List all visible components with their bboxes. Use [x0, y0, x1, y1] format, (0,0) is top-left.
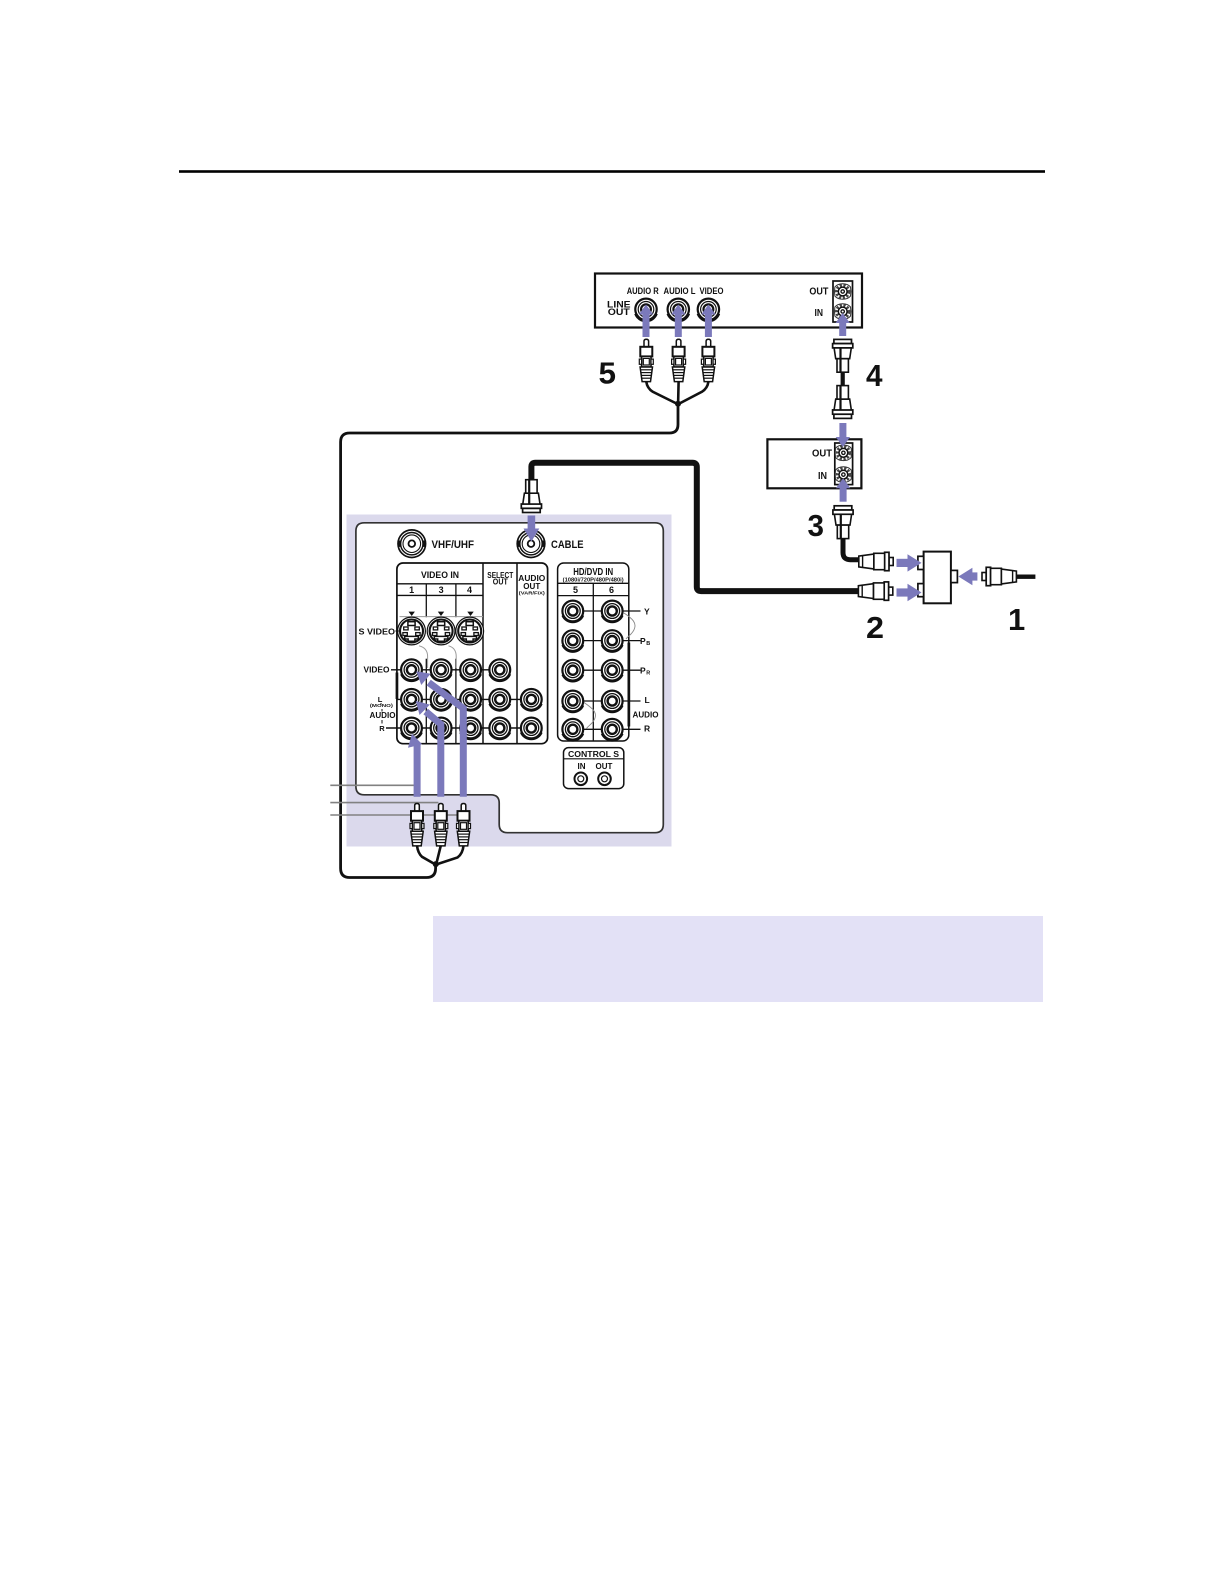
- F jack OUT (cable box): [835, 445, 852, 461]
- svg-text:P: P: [640, 666, 646, 676]
- HD jack 6 L: [602, 691, 623, 713]
- HD jack 5 Y: [562, 601, 583, 623]
- arrow into AUDIO L 1 jack: [423, 709, 444, 797]
- svg-text:2: 2: [866, 610, 884, 645]
- AUDIO L jack 1: [401, 689, 422, 711]
- L row line: [397, 698, 541, 700]
- column divider 1/3: [425, 584, 427, 743]
- svideo group plate: [399, 617, 481, 659]
- numbers row underline HD/DVD: [558, 595, 629, 597]
- wire: A/V cable 5 trunk loop: [341, 404, 678, 878]
- link curve Y/Pb col6: [624, 613, 635, 639]
- svg-text:Y: Y: [644, 606, 650, 616]
- svg-text:(VAR/FIX): (VAR/FIX): [519, 591, 545, 597]
- wire: TV side plug leads: [417, 846, 464, 865]
- arrow into CABLE jack: [528, 516, 536, 531]
- Pb row line: [573, 640, 641, 642]
- RCA plug into AUDIO R: [457, 804, 471, 846]
- header underline HD/DVD: [558, 582, 629, 584]
- svideo-video link 3: [449, 646, 457, 668]
- TV rear lavender backdrop: [347, 515, 672, 847]
- svg-text:IN: IN: [578, 762, 586, 771]
- svg-text:HD/DVD IN: HD/DVD IN: [573, 567, 613, 578]
- column divider 3/4: [455, 584, 457, 743]
- svg-text:1: 1: [1008, 602, 1025, 637]
- leader line 1: [330, 784, 414, 786]
- cable box rear panel: [767, 439, 861, 488]
- svg-text:1: 1: [409, 585, 414, 595]
- VIDEO jack 3: [431, 659, 452, 681]
- svg-text:OUT: OUT: [809, 285, 828, 297]
- leader line 3: [330, 814, 461, 816]
- header underline VIDEO IN: [397, 583, 483, 585]
- Y row line: [573, 610, 641, 612]
- svg-text:CONTROL S: CONTROL S: [568, 750, 620, 759]
- VHF/UHF jack: [398, 530, 426, 558]
- Pr row line: [573, 669, 641, 671]
- RCA plug into AUDIO L: [434, 804, 448, 846]
- AUDIO L jack 3: [431, 689, 452, 711]
- svg-text:5: 5: [573, 585, 578, 595]
- svg-text:AUDIO R: AUDIO R: [627, 286, 659, 296]
- VIDEO jack 4: [460, 659, 481, 681]
- splitter port lower left: [918, 584, 924, 597]
- svg-text:R: R: [646, 671, 650, 677]
- svg-text:B: B: [646, 641, 650, 647]
- svg-text:OUT: OUT: [608, 307, 630, 318]
- svg-text:3: 3: [808, 508, 825, 543]
- AUDIO R jack 4: [460, 718, 481, 740]
- svg-text:(1080i/720P/480P/480i): (1080i/720P/480P/480i): [563, 577, 624, 583]
- svg-text:OUT: OUT: [596, 762, 613, 771]
- arrow into AUDIO L: [671, 305, 685, 338]
- VCR RF strip: [833, 281, 853, 322]
- arrow into AUDIO R 1 jack: [414, 744, 421, 797]
- S VIDEO socket 3: [427, 617, 455, 645]
- arrow cable2 into splitter (right): [897, 584, 922, 601]
- F connector of cable 3 (horizontal): [859, 552, 893, 570]
- VIDEO IN jack table: [397, 563, 548, 744]
- arrow into cable box OUT (down): [836, 423, 850, 447]
- F connector of cable 1 (pointing left): [982, 567, 1016, 585]
- group bar left: [396, 673, 399, 700]
- F plug bottom of cable 4: [833, 386, 853, 419]
- VCR rear panel box: [595, 274, 862, 328]
- CABLE jack: [517, 530, 545, 558]
- AUDIO OUT L jack: [521, 689, 542, 711]
- svg-text:AUDIO: AUDIO: [633, 711, 659, 720]
- svg-text:IN: IN: [815, 307, 824, 319]
- CONTROL S OUT jack: [598, 773, 611, 786]
- arrow into VCR RF IN: [836, 313, 850, 336]
- TV rear white panel (stepped outline): [356, 523, 663, 833]
- svg-text:5: 5: [599, 356, 617, 391]
- svg-text:VIDEO IN: VIDEO IN: [421, 570, 459, 581]
- AUDIO L jack select out: [489, 689, 510, 711]
- F jack IN (cable box): [835, 467, 852, 483]
- RCA jack AUDIO R: [635, 299, 656, 322]
- AUDIO L jack 4: [460, 689, 481, 711]
- svg-text:P: P: [640, 636, 646, 646]
- HD jack 5 L: [562, 691, 583, 713]
- arrow into AUDIO R: [639, 305, 653, 338]
- cable box RF strip: [835, 443, 853, 485]
- marker above S VIDEO 4: [467, 612, 473, 616]
- marker above S VIDEO 3: [438, 612, 444, 616]
- link curve L/R col5: [584, 703, 596, 729]
- svg-text:(MONO): (MONO): [370, 703, 393, 709]
- RCA jack AUDIO L: [668, 299, 689, 322]
- HD jack 6 Pb: [602, 630, 623, 652]
- F plug top of cable 4: [833, 339, 853, 372]
- wire: antenna cable 1: [1014, 575, 1035, 579]
- coax cable 4 (VCR IN to cable box OUT): [841, 370, 845, 388]
- arrow cable1 into splitter (left): [958, 568, 977, 585]
- HD jack 6 Pr: [602, 660, 623, 682]
- svg-text:IN: IN: [818, 470, 827, 482]
- CONTROL S header underline: [564, 758, 624, 760]
- column divider 5/6: [592, 583, 594, 741]
- coax cable 3 (cable box IN to splitter): [843, 536, 859, 560]
- RCA plug to VIDEO: [701, 339, 715, 381]
- RCA jack VIDEO: [698, 299, 719, 322]
- svg-text:VIDEO: VIDEO: [700, 286, 724, 296]
- VIDEO jack 1: [401, 659, 422, 681]
- F plug into TV CABLE jack (pointing down): [521, 480, 541, 513]
- RCA plug into VIDEO 1: [410, 804, 424, 846]
- AUDIO OUT R jack: [521, 718, 542, 740]
- svg-text:CABLE: CABLE: [551, 539, 584, 551]
- svg-text:OUT: OUT: [812, 447, 833, 459]
- svg-text:3: 3: [439, 585, 444, 595]
- svg-text:6: 6: [609, 585, 614, 595]
- splitter body: [924, 552, 951, 604]
- HD jack 5 Pb: [562, 630, 583, 652]
- video row line: [391, 669, 511, 671]
- svideo-video link 1: [419, 646, 428, 668]
- R row line: [386, 727, 541, 729]
- group bar right: [628, 643, 631, 727]
- AUDIO R jack select out: [489, 718, 510, 740]
- arrow cable3 into splitter (right): [897, 554, 922, 571]
- info note box: [433, 916, 1043, 1002]
- L row line (HD): [573, 700, 641, 702]
- svg-text:R: R: [379, 724, 385, 733]
- leader line 2: [330, 802, 438, 804]
- F jack OUT (VCR): [834, 284, 851, 300]
- VIDEO jack select out: [489, 659, 510, 681]
- RCA plug to AUDIO R: [639, 339, 653, 381]
- svg-text:4: 4: [467, 585, 472, 595]
- S VIDEO socket 1: [398, 617, 426, 645]
- arrow into cable box IN (up): [836, 478, 850, 502]
- HD jack 5 R: [562, 719, 583, 741]
- svg-text:OUT: OUT: [493, 578, 508, 587]
- splitter port right: [951, 570, 958, 582]
- svideo group line: [400, 616, 484, 618]
- CONTROL S box: [564, 748, 624, 789]
- svg-text:L: L: [645, 695, 650, 705]
- marker above S VIDEO 1: [409, 612, 415, 616]
- R row line (HD): [573, 728, 641, 730]
- table divider SELECT OUT / AUDIO OUT: [516, 563, 518, 744]
- svg-text:VHF/UHF: VHF/UHF: [432, 539, 475, 551]
- HD jack 6 Y: [602, 601, 623, 623]
- F jack IN (VCR): [834, 304, 851, 320]
- svg-text:4: 4: [866, 358, 883, 393]
- svg-text:L: L: [378, 695, 383, 704]
- HD/DVD IN jack table: [558, 563, 629, 741]
- RCA plug to AUDIO L: [672, 339, 686, 381]
- wire: thick coax cable 2 (TV CABLE to splitter): [531, 463, 861, 591]
- CONTROL S IN jack: [575, 773, 588, 786]
- svg-text:OUT: OUT: [523, 581, 541, 591]
- wire: cable 5 plug leads (VCR side): [646, 382, 708, 404]
- HD jack 5 Pr: [562, 660, 583, 682]
- AUDIO R jack 3: [431, 718, 452, 740]
- horizontal rule: [179, 170, 1045, 173]
- splitter port upper left: [918, 556, 924, 569]
- F plug of cable 3 (vertical): [833, 506, 853, 539]
- arrow into VIDEO: [701, 305, 715, 338]
- HD jack 6 R: [602, 719, 623, 741]
- numbers row underline: [397, 594, 483, 596]
- svg-text:VIDEO: VIDEO: [364, 666, 390, 675]
- S VIDEO socket 4: [456, 617, 484, 645]
- arrow into VIDEO 1 jack: [427, 680, 467, 797]
- svg-text:S VIDEO: S VIDEO: [359, 626, 396, 636]
- F connector of cable 2 (horizontal): [858, 582, 892, 600]
- table divider VIDEO IN / SELECT OUT: [482, 563, 484, 744]
- svg-text:AUDIO: AUDIO: [370, 711, 396, 720]
- svg-text:R: R: [644, 724, 650, 734]
- AUDIO R jack 1: [401, 718, 422, 740]
- svg-text:AUDIO L: AUDIO L: [664, 286, 696, 296]
